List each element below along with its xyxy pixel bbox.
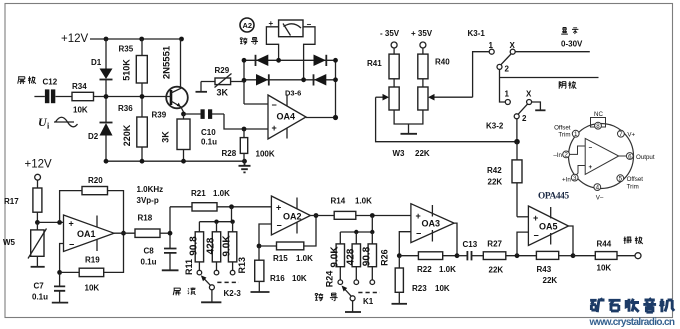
- svg-text:3Vp-p: 3Vp-p: [137, 196, 159, 205]
- svg-text:OA3: OA3: [422, 219, 441, 229]
- op-amp U2 OA2: [271, 196, 310, 235]
- svg-text:9.0K: 9.0K: [329, 246, 340, 268]
- svg-text:R14: R14: [331, 197, 346, 206]
- node W3-R42: [514, 139, 520, 145]
- svg-text:D1: D1: [91, 58, 102, 67]
- svg-text:R22: R22: [417, 265, 432, 274]
- terminal +12V (bottom): [25, 159, 53, 189]
- pin 8 NC box: [591, 111, 606, 130]
- resistor R19: [60, 233, 124, 292]
- resistor R12: [206, 222, 221, 275]
- node R20 left tap: [57, 220, 62, 225]
- wire bridge top row: [244, 59, 336, 61]
- switch K3-1: [468, 29, 516, 74]
- svg-text:−: −: [534, 231, 539, 241]
- ground (C8): [162, 269, 179, 271]
- svg-text:10K: 10K: [292, 274, 307, 283]
- svg-text:A2: A2: [243, 21, 253, 30]
- pin 7: [618, 130, 636, 138]
- svg-text:R35: R35: [119, 45, 134, 54]
- svg-text:+: +: [589, 164, 593, 171]
- svg-text:Output: Output: [636, 154, 655, 161]
- resistor R23: [395, 256, 450, 304]
- node OA3 minus R22 R23: [397, 253, 402, 258]
- node div1 R13: [230, 220, 234, 224]
- wire divider2 top line: [340, 231, 373, 233]
- svg-text:NC: NC: [594, 111, 603, 118]
- svg-text:6: 6: [628, 153, 632, 160]
- wire D1-D2 node: [105, 80, 107, 123]
- capacitor C12: [34, 78, 57, 104]
- wire bridge bottom row: [244, 79, 336, 81]
- svg-text:1: 1: [505, 90, 510, 99]
- op-amp symbol inside package: [585, 138, 619, 174]
- diode D4 (top-right): [314, 55, 327, 67]
- svg-text:R15: R15: [273, 254, 288, 263]
- resistor R34: [72, 82, 94, 115]
- svg-text:10K: 10K: [73, 106, 88, 115]
- wire OA1 plus input: [37, 221, 63, 223]
- label 阴极: [559, 81, 576, 89]
- ground (K3-2 X): [532, 102, 546, 110]
- svg-text:X: X: [526, 90, 532, 99]
- wire divider1 feed: [231, 207, 233, 222]
- ground (R23): [392, 303, 408, 305]
- label 跨导 (K1): [315, 293, 338, 301]
- svg-text:V–: V–: [596, 195, 604, 202]
- label 显示 0-30V: [561, 28, 583, 49]
- switch K3-2: [486, 90, 532, 131]
- rheostat W5: [3, 222, 47, 266]
- wire OA3 minus elbow: [399, 232, 411, 256]
- wire bottom rail: [106, 160, 245, 162]
- resistor R27: [483, 239, 536, 274]
- resistor R16: [255, 246, 307, 292]
- svg-text:K1: K1: [363, 297, 374, 306]
- svg-text:R16: R16: [270, 274, 285, 283]
- pin 6: [626, 153, 654, 161]
- label 1.0KHz 3Vp-p: [137, 185, 164, 205]
- svg-text:8: 8: [596, 123, 600, 130]
- wire OA5 output: [569, 226, 574, 256]
- resistor R25: [345, 232, 360, 285]
- svg-text:C13: C13: [463, 240, 478, 249]
- svg-text:R21: R21: [191, 189, 206, 198]
- transistor Q1 2N5551: [162, 39, 188, 114]
- terminal +35V: [411, 29, 433, 54]
- svg-text:9.0K: 9.0K: [222, 235, 233, 257]
- svg-text:W5: W5: [3, 238, 16, 247]
- ground (R29): [196, 82, 208, 92]
- terminal 栅极: [624, 237, 643, 259]
- watermark url: [589, 317, 676, 328]
- svg-text:428: 428: [206, 237, 217, 254]
- svg-text:22K: 22K: [415, 149, 430, 158]
- label +12V (top): [61, 33, 89, 45]
- svg-text:1.0K: 1.0K: [213, 189, 230, 198]
- pin 2: [553, 151, 569, 159]
- resistor R11: [184, 222, 204, 275]
- svg-text:1.0K: 1.0K: [355, 197, 372, 206]
- resistor R26: [361, 232, 389, 285]
- diode D6 (bottom-right): [314, 74, 327, 86]
- svg-text:C8: C8: [144, 247, 155, 256]
- op-amp U4 OA4: [268, 95, 306, 139]
- svg-text:K3-2: K3-2: [486, 122, 504, 131]
- wire bridge left column: [243, 60, 245, 104]
- svg-text:7: 7: [619, 131, 623, 138]
- resistor R41: [367, 54, 399, 87]
- diode D3 (top-left): [256, 55, 269, 67]
- potentiometer W3 right half: [418, 87, 473, 110]
- wire K3-1 X to display: [515, 51, 590, 53]
- svg-text:Offset: Offset: [554, 125, 571, 132]
- node OA5 output: [571, 253, 576, 258]
- wire OA3 output: [454, 223, 457, 256]
- op-amp U5 OA5: [528, 206, 568, 246]
- svg-text:OA5: OA5: [539, 222, 558, 232]
- pin 3: [562, 174, 578, 183]
- wire OA2 output: [310, 215, 334, 217]
- source Ui: [38, 115, 78, 131]
- resistor R28: [222, 129, 275, 161]
- svg-text:90.8: 90.8: [188, 236, 199, 256]
- capacitor C13: [457, 240, 484, 260]
- wire K3-1 pole down / cathode line: [500, 69, 599, 102]
- svg-text:428: 428: [345, 248, 356, 265]
- svg-text:R42: R42: [487, 166, 502, 175]
- svg-text:22K: 22K: [543, 276, 558, 285]
- svg-text:V+: V+: [627, 132, 635, 139]
- wire OA5 plus input: [517, 216, 528, 218]
- svg-text:+12V: +12V: [61, 33, 89, 45]
- ground (W3): [401, 124, 418, 134]
- pin 1: [554, 125, 579, 139]
- node R17-W5-OA1: [35, 220, 40, 225]
- resistor R39: [152, 111, 191, 162]
- wire W3 bottoms joined: [394, 110, 423, 124]
- node base-R35R36: [140, 94, 145, 99]
- switch K2-3: [201, 275, 242, 298]
- svg-text:2N5551: 2N5551: [162, 45, 173, 79]
- node bridge top-right: [333, 58, 338, 63]
- svg-text:+12V: +12V: [25, 159, 53, 171]
- node bridge top-left: [242, 58, 247, 63]
- resistor R43: [536, 251, 573, 285]
- wire divider2 feed: [371, 216, 373, 233]
- svg-text:OA4: OA4: [277, 112, 296, 122]
- capacitor C10: [184, 109, 225, 146]
- node div2 R25: [354, 230, 358, 234]
- wire OA4 plus input: [224, 114, 268, 129]
- resistor R40: [418, 54, 450, 87]
- svg-text:R40: R40: [435, 58, 450, 67]
- node bridge bottom-right: [333, 77, 338, 82]
- meter M1: [269, 19, 312, 37]
- svg-text:1: 1: [574, 131, 578, 138]
- svg-text:+: +: [272, 123, 277, 133]
- svg-text:C12: C12: [43, 78, 58, 87]
- potentiometer W3 left half: [376, 87, 400, 110]
- ground (W5): [31, 266, 45, 268]
- wire OA4 minus input: [244, 103, 268, 105]
- svg-text:2: 2: [564, 152, 568, 159]
- svg-text:−: −: [589, 145, 593, 152]
- svg-text:R28: R28: [222, 149, 237, 158]
- svg-text:3: 3: [573, 175, 577, 182]
- svg-text:0-30V: 0-30V: [561, 40, 583, 49]
- svg-text:0.1u: 0.1u: [32, 293, 48, 302]
- wire R40 wiper to K3-1: [473, 52, 489, 97]
- label OPA445: [538, 192, 569, 202]
- svg-text:OA1: OA1: [77, 229, 96, 239]
- svg-text:+: +: [533, 213, 538, 223]
- svg-text:2: 2: [505, 65, 510, 74]
- resistor R36: [118, 97, 147, 162]
- node OA4 plus R28: [242, 127, 247, 132]
- resistor R13: [222, 222, 247, 275]
- node OA2 output: [314, 213, 319, 218]
- resistor R42: [487, 142, 522, 217]
- svg-text:4: 4: [596, 184, 600, 191]
- wire D1 top: [105, 39, 107, 69]
- svg-text:R23: R23: [412, 284, 427, 293]
- node base-D1D2: [104, 94, 109, 99]
- wire pin6 to output: [619, 155, 627, 157]
- svg-text:K2-3: K2-3: [224, 289, 242, 298]
- capacitor C8: [141, 247, 177, 271]
- svg-text:R34: R34: [72, 82, 87, 91]
- svg-text:1.0KHz: 1.0KHz: [137, 185, 164, 194]
- pin 5: [617, 175, 643, 191]
- svg-text:3K: 3K: [217, 88, 229, 98]
- wire divider1 top line: [199, 221, 232, 223]
- wire OA1 output: [114, 232, 135, 234]
- svg-text:www.crystalradio.cn: www.crystalradio.cn: [589, 317, 676, 328]
- ground (R16): [251, 291, 270, 293]
- svg-text:C7: C7: [34, 282, 45, 291]
- wire D2 to bottom rail: [105, 136, 107, 162]
- svg-text:0.1u: 0.1u: [201, 138, 217, 147]
- svg-text:K3-1: K3-1: [468, 29, 486, 38]
- resistor R21: [170, 189, 271, 211]
- node rail-R36: [140, 159, 145, 164]
- wire K3-2 pole to node: [516, 119, 518, 142]
- svg-text:W3: W3: [393, 149, 406, 158]
- wire pin2 to minus: [570, 146, 585, 154]
- op-amp U1 OA1: [64, 215, 115, 252]
- svg-text:R24: R24: [324, 271, 334, 288]
- resistor R29 (trimmer): [201, 66, 244, 98]
- op-amp U3 OA3: [411, 204, 454, 243]
- resistor R35: [119, 39, 148, 97]
- resistor R20: [60, 176, 124, 233]
- svg-text:+In: +In: [562, 176, 571, 183]
- IC package OPA445 pinout circle: [569, 124, 634, 189]
- svg-text:Trim: Trim: [558, 132, 570, 139]
- svg-text:−: −: [272, 100, 277, 110]
- node div1 R12: [214, 220, 218, 224]
- node rail-collector: [179, 37, 184, 42]
- svg-text:R19: R19: [85, 256, 100, 265]
- node OA1 minus / C7: [57, 270, 62, 275]
- svg-text:C10: C10: [201, 128, 216, 137]
- meter A2 circle label: [240, 18, 254, 32]
- wire bridge right column: [335, 60, 337, 117]
- label D3-6: [285, 88, 301, 97]
- svg-text:+: +: [69, 219, 74, 229]
- wire C12 to R34: [56, 96, 73, 98]
- svg-text:−: −: [416, 229, 421, 239]
- wire OA1 minus elbow: [60, 244, 64, 273]
- svg-text:22K: 22K: [489, 265, 504, 274]
- wire OA5 minus elbow: [517, 232, 528, 256]
- wire OA2 minus elbow: [259, 224, 271, 246]
- node OA2 minus R15 R16: [257, 244, 262, 249]
- ground (C7): [52, 302, 68, 304]
- svg-text:90.8: 90.8: [361, 246, 372, 266]
- svg-text:10K: 10K: [435, 284, 450, 293]
- svg-text:R26: R26: [379, 249, 389, 266]
- node emitter: [181, 112, 186, 117]
- svg-text:−: −: [69, 240, 74, 250]
- node R27-OA5minus-R43: [515, 253, 520, 258]
- svg-text:220K: 220K: [122, 124, 132, 146]
- svg-text:OPA445: OPA445: [538, 192, 569, 202]
- wire meter left: [266, 27, 278, 61]
- svg-text:+: +: [276, 203, 281, 213]
- node OA3 output: [455, 253, 460, 258]
- node rail-R35: [139, 37, 144, 42]
- node rail-D2: [104, 159, 109, 164]
- diode D5 (bottom-left): [256, 74, 269, 86]
- svg-text:22K: 22K: [488, 178, 503, 187]
- svg-text:OA2: OA2: [283, 212, 302, 222]
- node div2 R26: [370, 230, 374, 234]
- svg-text:R13: R13: [237, 257, 247, 274]
- node R21-divider: [229, 204, 234, 209]
- wire base line: [94, 96, 168, 98]
- svg-text:2: 2: [522, 114, 527, 123]
- svg-text:R39: R39: [152, 111, 167, 120]
- watermark logo 矿石收音机: [590, 298, 674, 312]
- resistor R22: [399, 252, 457, 274]
- resistor R44: [573, 240, 635, 273]
- resistor R14: [331, 197, 411, 220]
- svg-text:R17: R17: [4, 197, 19, 206]
- terminal -35V: [380, 29, 400, 54]
- node bridge bottom-left R29: [242, 78, 247, 83]
- svg-text:100K: 100K: [256, 150, 275, 159]
- switch K1: [342, 286, 381, 307]
- wire OA4 output: [306, 117, 336, 119]
- diode D1: [91, 58, 113, 80]
- svg-text:Trim: Trim: [627, 183, 639, 190]
- resistor R24: [324, 232, 344, 287]
- svg-text:–In: –In: [553, 152, 562, 159]
- node OA4 output: [333, 115, 338, 120]
- pin 4: [594, 184, 604, 202]
- svg-text:0.1u: 0.1u: [141, 258, 157, 267]
- node rail-R28: [242, 159, 247, 164]
- svg-text:3K: 3K: [161, 131, 171, 143]
- svg-text:Offset: Offset: [627, 176, 644, 183]
- node rail-D1: [104, 37, 109, 42]
- node bridge bottom meter: [301, 77, 306, 82]
- wire pin3 to plus: [576, 166, 585, 176]
- node bridge top meter: [276, 58, 281, 63]
- capacitor C7: [32, 272, 65, 302]
- ground (K1): [345, 301, 361, 312]
- svg-text:10K: 10K: [85, 284, 100, 293]
- svg-text:R18: R18: [138, 214, 153, 223]
- label 屏极: [18, 76, 36, 84]
- svg-text:−: −: [277, 221, 282, 231]
- wire W3 wiper to K3-2 node: [376, 97, 517, 142]
- svg-text:5: 5: [619, 176, 623, 183]
- svg-text:R36: R36: [118, 104, 133, 113]
- svg-text:10K: 10K: [597, 264, 612, 273]
- label 屏流: [173, 288, 195, 296]
- svg-text:+: +: [416, 211, 421, 221]
- svg-text:R27: R27: [487, 239, 502, 248]
- label W3 22K: [393, 149, 430, 158]
- svg-text:R11: R11: [184, 259, 194, 275]
- resistor R15: [259, 216, 316, 264]
- node OA1 output: [121, 231, 126, 236]
- svg-text:1.0K: 1.0K: [439, 265, 456, 274]
- resistor R17: [4, 188, 42, 222]
- diode D2: [88, 123, 113, 142]
- ground (K2-3): [201, 290, 221, 303]
- label 跨导 (meter): [240, 38, 258, 45]
- node rail-R39: [181, 159, 186, 164]
- svg-text:D2: D2: [88, 132, 99, 141]
- svg-text:R41: R41: [367, 59, 382, 68]
- svg-text:R44: R44: [597, 240, 612, 249]
- wire meter right: [303, 27, 315, 80]
- svg-text:R20: R20: [88, 176, 103, 185]
- svg-text:R43: R43: [537, 265, 552, 274]
- svg-text:1.0K: 1.0K: [296, 254, 313, 263]
- resistor R18: [135, 214, 170, 238]
- node R18-C8-R21: [168, 207, 173, 249]
- svg-text:510K: 510K: [121, 59, 131, 81]
- svg-text:R29: R29: [215, 66, 230, 75]
- svg-text:+ 35V: + 35V: [411, 29, 433, 38]
- svg-text:- 35V: - 35V: [380, 29, 400, 38]
- ground (bottom rail): [239, 161, 251, 172]
- node R14-divider2: [370, 213, 375, 218]
- wire +12V rail: [90, 38, 182, 40]
